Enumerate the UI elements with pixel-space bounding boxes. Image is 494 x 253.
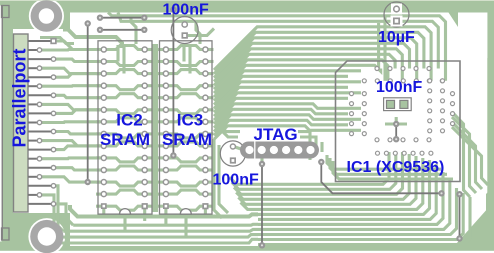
svg-text:Parallelport: Parallelport [10, 48, 30, 147]
svg-text:IC3: IC3 [177, 111, 203, 130]
svg-text:SRAM: SRAM [100, 130, 150, 149]
svg-text:SRAM: SRAM [162, 130, 212, 149]
svg-text:IC2: IC2 [116, 111, 142, 130]
svg-text:100nF: 100nF [163, 2, 209, 19]
svg-text:JTAG: JTAG [254, 125, 298, 144]
svg-text:100nF: 100nF [376, 79, 422, 96]
svg-text:100nF: 100nF [213, 171, 259, 188]
svg-text:10µF: 10µF [378, 29, 415, 46]
svg-text:IC1 (XC9536): IC1 (XC9536) [347, 159, 445, 176]
